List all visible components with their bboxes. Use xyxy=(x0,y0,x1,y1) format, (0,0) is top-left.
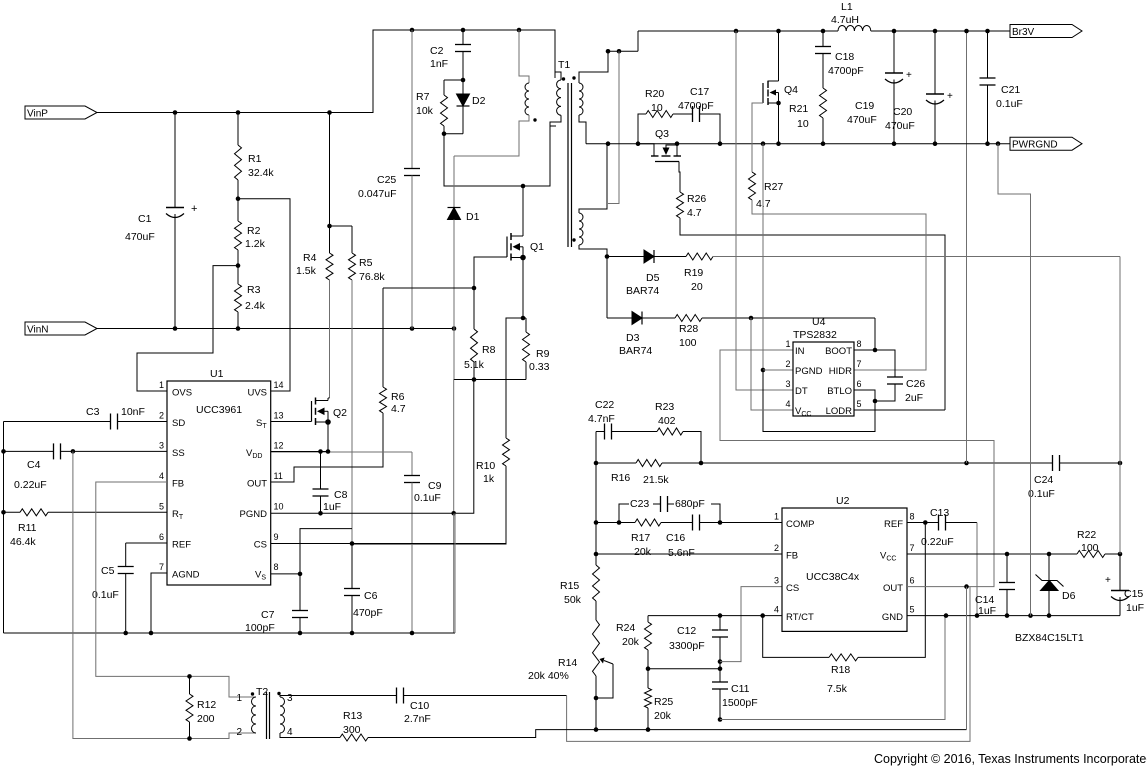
svg-text:10: 10 xyxy=(274,501,284,511)
svg-text:1k: 1k xyxy=(483,473,495,485)
transistor Q2 xyxy=(311,401,313,422)
svg-text:76.8k: 76.8k xyxy=(359,271,385,283)
svg-text:4700pF: 4700pF xyxy=(678,100,714,112)
svg-text:R24: R24 xyxy=(616,622,635,634)
svg-text:470uF: 470uF xyxy=(885,120,915,132)
svg-text:1500pF: 1500pF xyxy=(722,697,758,709)
svg-text:2uF: 2uF xyxy=(905,392,923,404)
wire analog ground bus xyxy=(4,632,456,634)
svg-text:FB: FB xyxy=(786,551,798,562)
svg-text:3: 3 xyxy=(774,576,779,586)
capacitor C12 xyxy=(719,616,721,630)
svg-text:BAR74: BAR74 xyxy=(626,285,659,297)
svg-text:C15: C15 xyxy=(1124,588,1143,600)
svg-text:200: 200 xyxy=(197,713,215,725)
svg-text:5.1k: 5.1k xyxy=(464,359,485,371)
svg-text:470uF: 470uF xyxy=(847,114,877,126)
node sense line top xyxy=(617,49,622,54)
svg-text:9: 9 xyxy=(274,532,279,542)
svg-text:UCC38C4x: UCC38C4x xyxy=(806,571,860,583)
wire IN net : U2 OUT to U4 IN xyxy=(720,350,994,587)
node Q2 source xyxy=(325,419,331,425)
wire gate drive xyxy=(383,287,474,289)
wire C10 net to U2 OUT xyxy=(567,587,970,742)
svg-text:C2: C2 xyxy=(430,45,444,57)
svg-text:Q4: Q4 xyxy=(784,84,798,96)
svg-text:FB: FB xyxy=(172,479,184,490)
transformer T1 core xyxy=(567,83,569,247)
wire sec bot top xyxy=(579,144,607,213)
wire OVS net xyxy=(137,266,238,391)
svg-text:10nF: 10nF xyxy=(121,406,145,418)
wire gnd bus up xyxy=(454,513,456,633)
wire OUT net to lower bus xyxy=(966,587,968,730)
transistor Q1 xyxy=(506,237,508,258)
svg-text:R15: R15 xyxy=(560,580,579,592)
svg-text:C23: C23 xyxy=(630,498,649,510)
svg-text:R20: R20 xyxy=(645,88,664,100)
svg-text:C6: C6 xyxy=(364,590,378,602)
svg-text:6: 6 xyxy=(857,379,862,389)
resistor R25 xyxy=(647,669,649,688)
svg-text:1: 1 xyxy=(774,512,779,522)
svg-text:T2: T2 xyxy=(256,686,268,698)
svg-text:VinN: VinN xyxy=(27,325,49,336)
svg-text:SS: SS xyxy=(172,448,185,459)
capacitor C16 xyxy=(692,515,694,531)
node R1 top xyxy=(236,110,241,115)
wire Q2 source to VDD xyxy=(327,422,329,452)
svg-text:3300pF: 3300pF xyxy=(669,640,705,652)
node R4/R5 tap xyxy=(327,224,332,229)
svg-text:+: + xyxy=(1105,575,1111,586)
wire PWRGND to U4 PGND xyxy=(762,144,764,370)
svg-text:4.7uH: 4.7uH xyxy=(831,14,859,26)
svg-text:R27: R27 xyxy=(764,181,783,193)
wire PGND to R8 bottom xyxy=(454,380,474,514)
wire PWRGND rail xyxy=(586,143,1010,145)
svg-text:UCC3961: UCC3961 xyxy=(196,404,242,416)
connector VinP xyxy=(25,106,97,119)
wire AGND xyxy=(151,573,167,633)
wire VinP to T1 primary top xyxy=(97,30,555,113)
svg-text:3: 3 xyxy=(287,693,293,704)
svg-text:7: 7 xyxy=(910,543,915,553)
node C2/R7/D2 xyxy=(461,78,466,83)
svg-text:1.2k: 1.2k xyxy=(245,238,266,250)
svg-text:+: + xyxy=(906,70,912,81)
svg-text:C16: C16 xyxy=(666,532,685,544)
node C25 top xyxy=(410,28,415,33)
capacitor C24 xyxy=(1052,455,1054,471)
capacitor C20 xyxy=(934,31,936,94)
svg-text:R7: R7 xyxy=(416,91,430,103)
svg-text:1uF: 1uF xyxy=(323,501,341,513)
svg-text:Q2: Q2 xyxy=(333,407,347,419)
svg-text:UVS: UVS xyxy=(247,388,267,399)
node C11 bottom xyxy=(718,717,723,722)
resistor R9 xyxy=(523,317,526,319)
svg-text:2: 2 xyxy=(785,359,790,369)
T2 primary winding xyxy=(252,697,257,733)
wire LODR to R26 route xyxy=(854,409,945,411)
node aux winding top xyxy=(517,28,522,33)
diode D5 xyxy=(607,256,644,258)
svg-text:0.33: 0.33 xyxy=(529,361,550,373)
node C8 bottom xyxy=(318,511,323,516)
resistor R26 xyxy=(677,192,684,218)
svg-text:DT: DT xyxy=(795,386,808,397)
wire D1 anode down xyxy=(453,329,455,380)
node R16 right xyxy=(699,461,704,466)
svg-text:5: 5 xyxy=(159,501,164,511)
wire ST to Q2 gate xyxy=(271,421,312,423)
resistor R20 xyxy=(638,114,646,144)
svg-text:OUT: OUT xyxy=(883,583,903,594)
node C12 top xyxy=(718,613,723,618)
svg-text:2.7nF: 2.7nF xyxy=(404,713,431,725)
wire C13 to GND xyxy=(976,523,978,616)
capacitor C7 xyxy=(299,574,301,611)
resistor R8 xyxy=(473,288,475,329)
svg-text:20k: 20k xyxy=(654,710,672,722)
svg-text:C24: C24 xyxy=(1034,474,1053,486)
wire to BOOT xyxy=(702,317,875,319)
svg-text:R10: R10 xyxy=(476,460,495,472)
svg-text:REF: REF xyxy=(172,540,191,551)
resistor R21 xyxy=(820,88,827,118)
resistor R13 xyxy=(280,733,340,738)
connector PWRGND xyxy=(1010,137,1082,150)
wire primary bottom to Q1 drain xyxy=(550,115,561,186)
svg-text:PGND: PGND xyxy=(795,366,823,377)
svg-text:0.1uF: 0.1uF xyxy=(996,98,1023,110)
svg-text:7.5k: 7.5k xyxy=(827,683,848,695)
resistor R16 xyxy=(595,432,597,464)
svg-text:5: 5 xyxy=(857,399,862,409)
wire lower ground bus xyxy=(368,730,967,738)
svg-text:0.22uF: 0.22uF xyxy=(14,479,47,491)
svg-text:8: 8 xyxy=(274,562,279,572)
capacitor C25 xyxy=(411,30,413,169)
svg-text:8: 8 xyxy=(857,339,862,349)
svg-text:L1: L1 xyxy=(841,1,853,13)
transformer T2 core xyxy=(266,692,268,739)
svg-text:4.7nF: 4.7nF xyxy=(588,413,615,425)
T1 secondary top winding xyxy=(579,83,583,115)
svg-text:Br3V: Br3V xyxy=(1012,27,1035,38)
svg-text:20: 20 xyxy=(691,281,703,293)
wire VDD ext xyxy=(271,451,412,453)
node C1 bottom xyxy=(173,326,178,331)
svg-text:0.1uF: 0.1uF xyxy=(1028,488,1055,500)
node C14 top xyxy=(1005,552,1010,557)
capacitor C26 xyxy=(875,350,895,377)
svg-text:2: 2 xyxy=(774,543,779,553)
svg-text:R2: R2 xyxy=(247,225,261,237)
wire U2 GND line xyxy=(907,615,1120,617)
op-amp U2 box xyxy=(782,508,907,631)
wire Q3 gate to R26 xyxy=(679,162,680,193)
wire aux supply xyxy=(713,256,1120,258)
node U4 VCC tap xyxy=(749,316,754,321)
node Q1 drain xyxy=(521,184,526,189)
wire R10 to CS xyxy=(352,466,506,544)
svg-text:C3: C3 xyxy=(86,406,100,418)
svg-text:4: 4 xyxy=(287,727,293,738)
node DT rail tap xyxy=(734,29,739,34)
capacitor C15 xyxy=(1119,554,1121,590)
svg-text:Copyright © 2016, Texas Instru: Copyright © 2016, Texas Instruments Inco… xyxy=(874,752,1147,766)
svg-text:R18: R18 xyxy=(831,664,850,676)
resistor R5 xyxy=(330,225,353,227)
svg-text:13: 13 xyxy=(274,411,284,421)
node R4 top xyxy=(327,110,332,115)
diode D3 xyxy=(606,257,608,319)
node R7/D2 bottom xyxy=(442,131,447,136)
svg-text:SD: SD xyxy=(172,418,185,429)
wire output node xyxy=(608,50,638,52)
svg-text:0.1uF: 0.1uF xyxy=(414,492,441,504)
svg-text:R22: R22 xyxy=(1077,529,1096,541)
wire CS pin line xyxy=(271,543,352,545)
svg-text:C18: C18 xyxy=(835,51,854,63)
zener diode D6 xyxy=(1048,554,1050,581)
svg-text:20k 40%: 20k 40% xyxy=(528,670,569,682)
wire aux VCC rail xyxy=(1119,257,1121,555)
wire CS U2 xyxy=(720,587,782,662)
wire R24/C12 bottom xyxy=(648,668,720,670)
node R14 bottom xyxy=(594,727,599,732)
svg-text:10: 10 xyxy=(651,102,663,114)
svg-text:46.4k: 46.4k xyxy=(10,536,36,548)
svg-text:R12: R12 xyxy=(197,699,216,711)
capacitor C11 xyxy=(719,669,721,682)
svg-text:+: + xyxy=(191,203,197,215)
capacitor C14 xyxy=(1006,554,1008,583)
svg-text:100: 100 xyxy=(1081,542,1099,554)
node R17 left xyxy=(617,520,622,525)
svg-text:470pF: 470pF xyxy=(353,607,383,619)
potentiometer R14 xyxy=(593,620,600,676)
svg-text:C8: C8 xyxy=(334,489,348,501)
wire C11 net to GND pin xyxy=(720,616,945,720)
svg-text:BZX84C15LT1: BZX84C15LT1 xyxy=(1015,632,1084,644)
R14 wiper xyxy=(604,661,613,665)
wire sec bot to rectifier xyxy=(579,245,607,257)
capacitor C2 xyxy=(462,30,464,45)
svg-text:OUT: OUT xyxy=(247,479,267,490)
inductor L1 xyxy=(838,25,871,31)
svg-text:BTLO: BTLO xyxy=(827,386,852,397)
svg-text:R26: R26 xyxy=(687,193,706,205)
svg-text:5: 5 xyxy=(910,605,915,615)
svg-text:C19: C19 xyxy=(855,100,874,112)
svg-text:IN: IN xyxy=(795,346,805,357)
svg-text:R16: R16 xyxy=(611,472,630,484)
svg-text:CS: CS xyxy=(786,583,799,594)
svg-text:402: 402 xyxy=(658,415,676,427)
node D5/D3 anode xyxy=(605,254,610,259)
capacitor C17 xyxy=(692,106,694,122)
node COMP left xyxy=(594,520,599,525)
capacitor C6 xyxy=(351,544,353,589)
svg-text:100: 100 xyxy=(679,337,697,349)
wire VDD pin xyxy=(271,451,328,453)
node R8 bottom xyxy=(472,377,477,382)
svg-text:C4: C4 xyxy=(27,459,41,471)
T2 secondary winding xyxy=(280,697,285,733)
svg-text:C21: C21 xyxy=(1001,84,1020,96)
resistor R18 xyxy=(763,616,829,658)
node output sense / R16 xyxy=(964,461,969,466)
wire U4 below loop to BTLO xyxy=(763,370,875,432)
svg-text:D6: D6 xyxy=(1062,590,1076,602)
svg-text:R11: R11 xyxy=(18,522,37,534)
node D6 top xyxy=(1047,552,1052,557)
svg-text:2: 2 xyxy=(159,411,164,421)
resistor R3 xyxy=(237,266,239,284)
wire sec top to output xyxy=(579,51,608,83)
wire sec top bottom to gnd rail xyxy=(579,115,586,144)
svg-text:+: + xyxy=(947,91,953,102)
svg-text:10: 10 xyxy=(797,118,809,130)
wire FB to T2 xyxy=(96,482,190,676)
resistor R28 xyxy=(675,315,702,322)
wire Q1 gate xyxy=(474,257,507,288)
svg-text:R17: R17 xyxy=(631,532,650,544)
op-amp U1 box xyxy=(167,381,271,585)
wire RT/CT line xyxy=(648,615,782,617)
connector VinN xyxy=(25,322,97,335)
node C2 top xyxy=(461,28,466,33)
svg-text:8: 8 xyxy=(910,512,915,522)
node C1 top xyxy=(173,110,178,115)
wire R5 to VS xyxy=(300,529,352,574)
wire PWRGND to U2 GND xyxy=(998,144,1031,616)
svg-text:6: 6 xyxy=(910,576,915,586)
svg-text:1: 1 xyxy=(236,693,242,704)
svg-text:TPS2832: TPS2832 xyxy=(793,329,837,341)
wire BTLO xyxy=(854,390,875,401)
svg-text:20k: 20k xyxy=(622,636,640,648)
svg-text:50k: 50k xyxy=(564,594,582,606)
svg-text:BOOT: BOOT xyxy=(825,346,852,357)
svg-text:1uF: 1uF xyxy=(1126,602,1144,614)
resistor R19 xyxy=(686,253,713,260)
svg-text:10k: 10k xyxy=(416,105,434,117)
node SS tap xyxy=(71,449,76,454)
node BOOT xyxy=(873,348,878,353)
wire FB line xyxy=(595,523,597,555)
svg-text:R1: R1 xyxy=(248,153,262,165)
svg-text:R6: R6 xyxy=(391,391,405,403)
svg-text:R23: R23 xyxy=(655,401,674,413)
node Q4 drain xyxy=(776,29,781,34)
svg-text:COMP: COMP xyxy=(786,519,815,530)
svg-text:U1: U1 xyxy=(210,368,224,380)
svg-text:7: 7 xyxy=(857,359,862,369)
wire Br3V rail xyxy=(638,30,838,32)
node CS tap xyxy=(718,659,723,664)
svg-text:C17: C17 xyxy=(690,86,709,98)
svg-text:VinP: VinP xyxy=(27,109,48,120)
svg-text:C9: C9 xyxy=(428,480,442,492)
svg-text:R9: R9 xyxy=(536,348,550,360)
wire R6 to OUT pin xyxy=(271,413,383,482)
capacitor C1 xyxy=(174,113,176,208)
diode D1 xyxy=(453,156,455,208)
svg-text:R4: R4 xyxy=(303,252,317,264)
wire clamp to primary bottom xyxy=(444,126,556,186)
node C25 bottom xyxy=(410,326,415,331)
node R2/R3 xyxy=(236,263,241,268)
svg-text:U4: U4 xyxy=(812,316,826,328)
svg-text:1: 1 xyxy=(159,380,164,390)
svg-text:C10: C10 xyxy=(410,700,429,712)
svg-text:D3: D3 xyxy=(626,332,640,344)
svg-text:21.5k: 21.5k xyxy=(643,474,669,486)
wire rail to DT xyxy=(736,31,793,390)
svg-text:C11: C11 xyxy=(731,683,750,695)
svg-text:14: 14 xyxy=(274,380,284,390)
wire to PGND net xyxy=(453,380,455,514)
resistor R6 xyxy=(382,288,384,387)
wire VinN xyxy=(97,328,454,330)
svg-text:Q3: Q3 xyxy=(655,128,669,140)
node R3 bottom xyxy=(236,326,241,331)
svg-text:PGND: PGND xyxy=(240,509,268,520)
svg-text:11: 11 xyxy=(274,471,283,481)
capacitor C4 xyxy=(4,450,54,452)
svg-text:C7: C7 xyxy=(261,609,275,621)
svg-text:100pF: 100pF xyxy=(245,622,275,634)
T1 secondary bottom winding xyxy=(579,213,583,245)
capacitor C10 xyxy=(280,696,396,698)
driver U4 box xyxy=(793,342,854,416)
svg-text:D5: D5 xyxy=(646,272,660,284)
resistor R11 xyxy=(4,511,21,513)
resistor R17 xyxy=(595,463,597,523)
resistor R12 xyxy=(186,694,193,722)
svg-text:C5: C5 xyxy=(101,565,115,577)
capacitor C19 xyxy=(893,31,895,73)
svg-text:2.4k: 2.4k xyxy=(245,300,266,312)
svg-text:C13: C13 xyxy=(930,507,949,519)
resistor R22 xyxy=(1077,551,1105,558)
svg-text:4: 4 xyxy=(159,471,164,481)
svg-text:4.7: 4.7 xyxy=(391,403,406,415)
svg-text:300: 300 xyxy=(343,724,361,736)
svg-text:R14: R14 xyxy=(558,657,577,669)
svg-text:0.047uF: 0.047uF xyxy=(358,188,397,200)
svg-text:Q1: Q1 xyxy=(530,241,544,253)
svg-text:R19: R19 xyxy=(684,267,703,279)
capacitor C23 xyxy=(619,504,660,523)
node C18 top xyxy=(821,29,826,34)
svg-text:12: 12 xyxy=(274,440,284,450)
wire VS pin xyxy=(271,573,300,575)
svg-text:R28: R28 xyxy=(679,323,698,335)
wire PGND pin xyxy=(271,512,454,514)
wire R27 to HIDR xyxy=(752,200,926,370)
capacitor C21 xyxy=(987,31,989,78)
svg-text:C25: C25 xyxy=(377,174,396,186)
wire BOOT xyxy=(854,349,875,351)
svg-text:C22: C22 xyxy=(595,399,614,411)
svg-text:U2: U2 xyxy=(836,495,850,507)
resistor R4 xyxy=(329,113,331,254)
